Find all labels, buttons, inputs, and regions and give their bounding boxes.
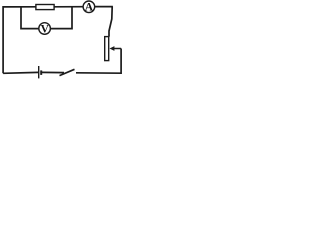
resistor R (box) bbox=[36, 5, 54, 10]
wire: bottom side right segment and right riser to wiper bbox=[76, 49, 121, 74]
svg-text:A: A bbox=[85, 1, 94, 13]
wire: top side between resistor and ammeter bbox=[54, 6, 83, 8]
wire: left side and top side bbox=[3, 7, 35, 74]
wire: rheostat top lead (slightly slanted) bbox=[109, 7, 112, 37]
ammeter A bbox=[83, 1, 95, 13]
battery cell: short thick plate bbox=[40, 70, 42, 75]
wiper arrow of rheostat bbox=[110, 46, 122, 51]
wire: bottom side middle segment (battery to switch) bbox=[42, 71, 64, 73]
switch S (open lever) bbox=[60, 69, 75, 75]
wire: voltmeter parallel branch bbox=[21, 7, 72, 29]
rheostat R2 (slider box) bbox=[105, 37, 109, 61]
wire: top side from ammeter to top-right corner bbox=[95, 6, 113, 8]
wire: bottom side left segment bbox=[3, 71, 38, 74]
voltmeter V bbox=[39, 23, 51, 36]
svg-text:V: V bbox=[41, 24, 50, 36]
battery cell: long thin plate bbox=[38, 66, 40, 78]
